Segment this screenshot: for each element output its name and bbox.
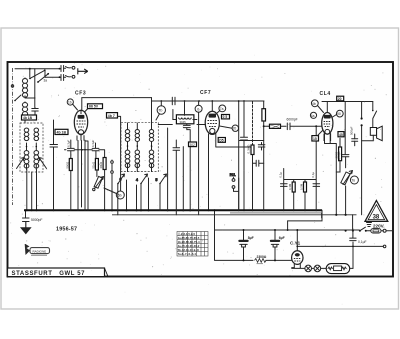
wire cy1 <box>243 259 277 261</box>
wires gang to bus <box>118 178 160 215</box>
svg-text:15: 15 <box>313 137 317 141</box>
svg-text:8µF: 8µF <box>248 236 254 240</box>
wire <box>168 128 184 210</box>
tone cap <box>342 155 349 168</box>
wire testpoint to tube <box>73 104 78 110</box>
svg-text:500pF: 500pF <box>349 126 353 135</box>
mains triangle <box>365 201 388 222</box>
padder cap <box>50 120 58 210</box>
T1 coil 1a <box>24 128 29 141</box>
antenna boundary dash-dot line <box>12 68 14 205</box>
AVC wire <box>65 149 105 151</box>
wire <box>45 76 61 78</box>
ground symbol <box>21 222 31 234</box>
antenna coupling cap A2 <box>61 75 71 81</box>
svg-text:D5: D5 <box>219 139 223 143</box>
svg-text:302: 302 <box>190 143 196 147</box>
logo flag <box>25 244 50 256</box>
bus dots right <box>208 209 318 211</box>
svg-text:7a: 7a <box>220 107 224 111</box>
svg-text:45: 45 <box>339 133 343 137</box>
voltage box 20 <box>337 96 344 101</box>
svg-text:STASSFURT GWL 57: STASSFURT GWL 57 <box>12 271 86 277</box>
heater wire <box>296 246 383 248</box>
bus dots mid <box>111 209 191 211</box>
test point To <box>350 176 358 184</box>
gang coil 3 upper <box>149 130 153 142</box>
svg-text:4b: 4b <box>312 102 316 106</box>
heater chain wire <box>292 267 305 270</box>
output vertical jack <box>361 102 363 215</box>
AF coupling cap <box>253 160 264 166</box>
test point 4a <box>310 112 316 118</box>
svg-text:1b: 1b <box>68 101 72 105</box>
antenna coil L2 <box>22 102 27 119</box>
tuned cap left <box>32 108 38 119</box>
coupling cap to CL4 <box>287 123 322 130</box>
phono input wire <box>111 160 114 210</box>
bus junction dots <box>25 209 55 211</box>
test point 20 <box>220 125 239 131</box>
tube CF3 <box>74 110 87 140</box>
scan noise speckles <box>7 55 387 305</box>
svg-text:CF3: CF3 <box>75 91 86 97</box>
0,1uF cap below switch <box>350 230 356 241</box>
wire <box>34 69 36 108</box>
svg-text:6000pF: 6000pF <box>287 118 298 122</box>
rotated value labels left <box>66 162 106 212</box>
svg-text:20: 20 <box>338 97 342 101</box>
cap on screen wire <box>258 143 265 151</box>
mains switch <box>359 227 367 232</box>
pilot lamp 2 <box>312 265 321 272</box>
antenna terminal A2 <box>72 75 75 78</box>
volume pot diagonal <box>93 176 104 190</box>
resistor R-left2 <box>95 159 98 177</box>
antenna terminal A1 <box>72 66 75 69</box>
svg-text:6,3µF: 6,3µF <box>66 140 70 147</box>
cap gn1 <box>281 184 288 187</box>
svg-text:3a: 3a <box>44 79 48 83</box>
dial lamp assembly <box>321 264 353 274</box>
screen box label <box>55 129 68 134</box>
grid wire gang to CF7 <box>158 124 205 126</box>
test point 0 <box>195 101 202 215</box>
svg-text:0,5M: 0,5M <box>300 183 304 190</box>
T1 coil 1b <box>24 151 29 169</box>
voltage box 4b 7 <box>107 113 118 118</box>
svg-text:To: To <box>351 179 355 183</box>
svg-text:0,3MΩ: 0,3MΩ <box>246 144 250 154</box>
svg-text:6,3µF: 6,3µF <box>91 140 95 147</box>
fuse <box>367 229 393 233</box>
small box label left <box>22 115 37 120</box>
svg-text:500Ω: 500Ω <box>66 162 70 169</box>
resistor gn2 <box>292 182 295 192</box>
rotated labels gn <box>279 172 315 190</box>
rail drop to gang coil3 <box>151 98 153 123</box>
voltage table <box>177 232 208 257</box>
speaker <box>362 126 383 141</box>
speaker switch <box>372 102 377 128</box>
svg-text:5: 5 <box>156 178 158 182</box>
voltage box 66 5V <box>88 104 103 109</box>
pilot lamp 1 <box>305 265 312 272</box>
gang coil 2 upper <box>135 130 139 142</box>
gang coil 3 lower <box>149 150 154 168</box>
svg-text:0: 0 <box>197 107 199 111</box>
CL4 cathode wires <box>325 133 337 215</box>
wire <box>30 69 45 78</box>
wire rail to osc box <box>173 101 197 120</box>
antenna coupling cap A1 <box>61 66 71 72</box>
test point 90 <box>332 110 343 117</box>
voltage box 15 <box>312 131 323 142</box>
grid network wire <box>284 126 317 210</box>
svg-text:2300Ω: 2300Ω <box>257 255 267 259</box>
T1 coil 2b <box>34 151 39 169</box>
tube CY1 <box>292 229 303 268</box>
wires T1 to bus <box>27 170 37 211</box>
ground cap 5000pF <box>23 210 30 228</box>
svg-text:RADIONE: RADIONE <box>33 249 47 253</box>
P.U. terminals <box>230 173 239 210</box>
svg-text:0,1µF: 0,1µF <box>358 240 367 244</box>
switch to ground coil <box>14 95 21 101</box>
antenna top wire <box>15 68 61 70</box>
band switch 4 <box>136 164 148 184</box>
test point 5b <box>104 188 124 199</box>
grid resistor LTP <box>263 124 286 128</box>
svg-text:20: 20 <box>233 127 237 131</box>
gang internal junction dots <box>127 123 153 150</box>
voltage box 0 5 <box>222 115 230 120</box>
cap left B <box>92 143 99 159</box>
gang coil 1 upper <box>125 130 129 142</box>
title block box <box>8 268 109 277</box>
svg-text:220V.: 220V. <box>373 223 385 228</box>
wire joining coil and cap <box>25 98 35 118</box>
switch lever 2 <box>37 73 49 83</box>
svg-text:0 5: 0 5 <box>223 115 228 119</box>
svg-text:7a·8··7··6··5·4: 7a·8··7··6··5·4 <box>178 252 197 256</box>
tube CF7 <box>205 101 219 138</box>
voltage box 45 <box>338 132 344 137</box>
svg-text:0,3M: 0,3M <box>288 183 292 190</box>
wave switch 3a lever <box>29 69 46 79</box>
wire box to coils <box>85 109 121 191</box>
T1 tuning arrow right <box>39 158 47 169</box>
svg-text:5000pF: 5000pF <box>337 151 341 161</box>
band switch 5 <box>152 164 167 184</box>
small value box mid <box>189 142 197 147</box>
svg-text:38: 38 <box>373 214 380 220</box>
wire CF3 cathode leads to bus <box>78 140 88 210</box>
field coil 2300ohm <box>255 255 292 264</box>
svg-text:90: 90 <box>337 112 341 116</box>
cap mid <box>173 140 180 215</box>
antenna coil L1 <box>22 78 27 98</box>
wire to IF box <box>24 118 26 123</box>
osc cap <box>183 124 190 211</box>
output vertical 1 <box>344 102 346 155</box>
test point 1b <box>67 99 73 105</box>
ground bus <box>24 209 322 211</box>
wire b+ up <box>214 210 216 230</box>
svg-text:CF7: CF7 <box>200 90 211 96</box>
schematic frame <box>8 62 394 277</box>
voltage box D5 <box>218 138 225 143</box>
cathode resistor 300ohm <box>335 138 342 172</box>
tuning gang dashed box <box>121 122 158 171</box>
gang coil 1 lower <box>125 150 130 168</box>
svg-text:4b 1B: 4b 1B <box>23 116 33 120</box>
svg-text:4b 1B: 4b 1B <box>57 131 67 135</box>
svg-text:CL4: CL4 <box>320 91 331 97</box>
svg-text:5000pF: 5000pF <box>31 218 43 222</box>
cap 8uF 1 <box>239 229 247 260</box>
top cap right <box>352 134 358 146</box>
T1 coil 2a <box>34 128 39 141</box>
tone pot <box>341 171 353 216</box>
cap left A <box>68 140 75 159</box>
svg-text:3045: 3045 <box>180 120 187 124</box>
terminal on boundary <box>11 85 13 87</box>
top rail CF7 <box>152 100 265 102</box>
CL4 rail <box>322 101 373 103</box>
CF7 cathode cap <box>241 101 248 210</box>
T1 tuning arrow left <box>17 158 25 169</box>
B+ line <box>215 229 360 231</box>
T1 internal junctions <box>26 143 37 170</box>
band switch 6 <box>117 164 127 184</box>
svg-text:51kΩ: 51kΩ <box>91 162 95 169</box>
resistor R-left1 <box>69 159 72 211</box>
mains symbol <box>367 223 372 227</box>
tube CL4 <box>322 102 333 142</box>
chassis line <box>112 214 357 216</box>
svg-text:6µF: 6µF <box>279 236 285 240</box>
resistor gn3 <box>304 182 307 192</box>
heater wire from oval <box>352 242 354 268</box>
plate resistor CF7 <box>262 101 266 210</box>
cap 8uF 2 <box>271 229 279 260</box>
CF3 plate wire <box>82 98 152 111</box>
svg-text:0,1µ: 0,1µ <box>279 172 283 178</box>
wire CF7 leads down <box>209 137 253 210</box>
gang coil 2 lower <box>135 150 140 168</box>
svg-text:4a: 4a <box>311 114 315 118</box>
node antenna junction <box>29 68 31 70</box>
electrolytic block top wire <box>215 230 254 260</box>
antenna symbol <box>78 68 88 74</box>
test point 7a <box>216 105 226 114</box>
svg-text:4: 4 <box>136 178 138 182</box>
coupling cap on rail <box>172 97 175 104</box>
chassis stub wire <box>383 245 386 248</box>
svg-text:6: 6 <box>120 178 122 182</box>
resistor AVC <box>251 102 254 211</box>
resistor R-left3 <box>103 150 106 210</box>
svg-text:30kΩ: 30kΩ <box>99 162 103 169</box>
oscillator coil box <box>176 115 194 124</box>
junction dots on B+ <box>345 230 354 232</box>
svg-text:Tb: Tb <box>158 109 162 113</box>
test point 4b <box>311 100 323 113</box>
svg-text:0,1µ: 0,1µ <box>311 172 315 178</box>
svg-text:P.U.: P.U. <box>230 173 236 177</box>
IF transformer T1 dashed box <box>20 123 43 172</box>
screen wire <box>239 101 264 210</box>
svg-text:66 5V: 66 5V <box>89 105 99 109</box>
test point Tb <box>156 101 166 120</box>
cap gn4 <box>313 184 320 187</box>
